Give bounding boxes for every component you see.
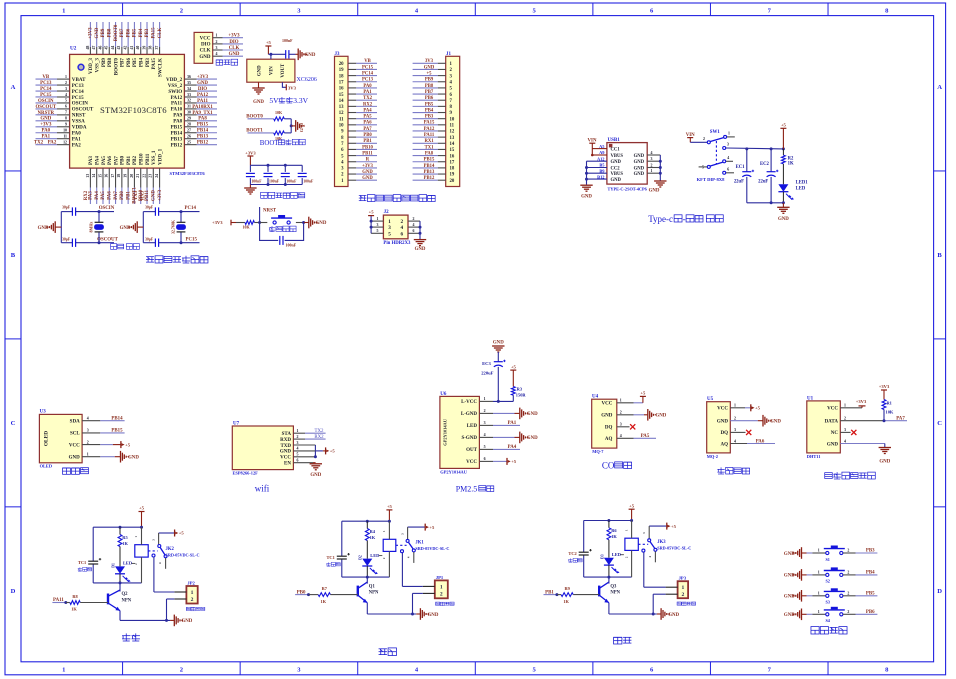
svg-text:KFT DIP-8X8: KFT DIP-8X8: [697, 177, 726, 182]
svg-text:JP2: JP2: [187, 580, 195, 585]
header J1 pin 8 net PB5: [413, 102, 453, 110]
header J3 pin 15 net PA1: [339, 90, 377, 98]
svg-text:GND: GND: [634, 160, 645, 165]
capacitor 100nF filter 1: [246, 165, 262, 184]
svg-text:VSS_1: VSS_1: [151, 150, 157, 165]
capacitor 30pF bottom: [145, 238, 159, 247]
resistor R5 1K: [118, 527, 128, 546]
svg-text:PA5: PA5: [101, 156, 107, 165]
connector USB1 designator: [608, 138, 621, 143]
svg-text:1: 1: [818, 610, 820, 614]
svg-text:PA12: PA12: [424, 127, 435, 132]
svg-text:14: 14: [339, 99, 344, 104]
net label PB14: [100, 416, 124, 421]
MCU pin 5 OSCIN: [36, 99, 89, 107]
caption jiashi: [122, 633, 140, 641]
capacitor 100nF reset: [280, 236, 297, 248]
svg-text:1: 1: [377, 217, 379, 221]
wire collector: [608, 577, 610, 584]
svg-text:GP2Y1014AU: GP2Y1014AU: [443, 418, 448, 445]
capacitor 30pF top: [62, 206, 76, 216]
resistor R4 1K: [365, 521, 375, 540]
svg-text:39: 39: [142, 46, 146, 50]
svg-text:R4: R4: [370, 529, 376, 534]
svg-text:R1: R1: [887, 401, 892, 406]
svg-text:GND: GND: [253, 100, 264, 105]
caption jinghua: [379, 648, 397, 656]
power +3V3 reset: [212, 220, 236, 226]
resistor R3 150R: [511, 386, 526, 397]
svg-text:PA2: PA2: [48, 141, 57, 146]
svg-text:5: 5: [377, 229, 379, 233]
led bottom rail wire: [342, 576, 390, 578]
svg-text:OUT: OUT: [466, 448, 478, 453]
MCU pin 33 PA12: [171, 93, 217, 101]
svg-text:PB7: PB7: [120, 28, 125, 37]
svg-text:12: 12: [450, 130, 455, 135]
MCU pin 45 PB8: [105, 22, 113, 67]
MCU pin 43 PB7: [117, 22, 125, 67]
svg-text:12: 12: [339, 111, 344, 116]
connector JP3 designator: [679, 576, 687, 581]
module U7 designator: [233, 422, 240, 427]
svg-text:LED1: LED1: [796, 180, 809, 185]
wire en row: [293, 462, 315, 464]
svg-text:+5: +5: [511, 459, 517, 464]
sensor U1 designator: [807, 396, 814, 401]
svg-text:VB: VB: [42, 75, 50, 80]
svg-text:10: 10: [63, 129, 67, 133]
svg-text:35: 35: [187, 81, 191, 85]
svg-text:GND: GND: [611, 178, 622, 183]
caption tandianrong: [326, 562, 340, 566]
svg-text:2: 2: [847, 570, 849, 574]
caption lvse dizuo: [677, 602, 696, 606]
svg-text:MQ-2: MQ-2: [707, 454, 718, 459]
wire txd down: [293, 445, 315, 457]
svg-text:GND: GND: [38, 226, 49, 231]
svg-text:6: 6: [413, 229, 415, 233]
capacitor EC1 22uF: [734, 149, 754, 203]
MCU pin 13 PA3: [84, 156, 94, 204]
sensor U1 pin 1 VCC: [827, 404, 846, 412]
header J3 pin 8 net PB0: [341, 133, 377, 141]
header J1 pin 15 net TX1: [413, 145, 455, 153]
junction: [366, 520, 369, 523]
svg-text:45: 45: [105, 46, 109, 50]
sensor U6 pin 1 L-VCC: [461, 397, 493, 405]
svg-text:1: 1: [620, 399, 622, 403]
relay part number: [415, 546, 449, 551]
svg-text:wifi: wifi: [255, 484, 270, 494]
diode D3 LED: [600, 552, 624, 573]
svg-text:GND: GND: [181, 619, 192, 624]
svg-text:16: 16: [450, 154, 455, 159]
svg-text:PA2: PA2: [72, 142, 81, 148]
svg-text:S-GND: S-GND: [461, 436, 477, 441]
svg-text:VCC: VCC: [200, 36, 211, 41]
svg-text:16: 16: [105, 174, 109, 178]
sensor U5 designator: [707, 397, 714, 402]
svg-text:USB1: USB1: [608, 138, 621, 143]
svg-text:+5: +5: [179, 531, 185, 536]
wire bus to gnd: [291, 125, 295, 127]
junction: [585, 172, 588, 175]
svg-text:3: 3: [297, 441, 299, 445]
wire J2 right bus: [419, 221, 421, 239]
svg-text:2: 2: [297, 435, 299, 439]
reset button S?: [271, 215, 292, 224]
net label BOOT0: [246, 115, 273, 120]
svg-text:JP1: JP1: [436, 575, 444, 580]
module U7 pin 5 VCC: [280, 453, 298, 461]
wire dht gnd: [840, 444, 885, 448]
svg-text:20: 20: [130, 174, 134, 178]
svg-text:RXD: RXD: [280, 438, 291, 443]
svg-text:GND: GND: [634, 154, 645, 159]
transistor Q2 NPN: [108, 590, 132, 611]
svg-text:PB11: PB11: [145, 153, 151, 165]
power +5 at regulator: [265, 40, 271, 54]
wire oled gnd: [100, 456, 120, 458]
caption wenshidu chuanganqi: [825, 472, 876, 479]
svg-text:RX2: RX2: [363, 102, 373, 107]
svg-text:+5: +5: [671, 524, 677, 529]
svg-text:+5: +5: [640, 391, 646, 396]
svg-text:37: 37: [155, 46, 159, 50]
header J3 pin 18 net PC14: [339, 72, 377, 80]
power +3V3 pullup: [879, 384, 890, 399]
svg-text:PA1: PA1: [363, 90, 372, 95]
svg-text:C: C: [937, 420, 942, 427]
wire led to rail: [608, 565, 610, 577]
header J2 left pins: [371, 217, 383, 233]
svg-text:4: 4: [727, 156, 729, 160]
svg-text:25: 25: [187, 140, 191, 144]
header J3 pin 9 net PA7: [341, 127, 377, 135]
header J3 pin 14 net TX2: [339, 96, 377, 104]
caption fuwei dianlu: [269, 226, 296, 232]
sensor U1 body: [807, 401, 841, 453]
caption tandianrong: [568, 558, 582, 562]
svg-text:VCC: VCC: [602, 402, 613, 407]
svg-text:PA3: PA3: [88, 156, 94, 165]
relay contact B: [406, 549, 415, 563]
svg-text:PB15: PB15: [111, 429, 123, 434]
sensor U6 pin 5 OUT: [466, 445, 493, 453]
svg-text:PB6: PB6: [425, 96, 434, 101]
wire to r10k: [236, 222, 245, 224]
svg-text:17: 17: [111, 174, 115, 178]
svg-text:GND: GND: [152, 190, 157, 201]
junction: [585, 178, 588, 181]
svg-text:PB8: PB8: [107, 28, 112, 37]
MCU pin 6 OSCOUT: [35, 105, 93, 113]
svg-text:2: 2: [847, 610, 849, 614]
svg-text:GND: GND: [493, 340, 504, 345]
svg-text:PB3: PB3: [866, 549, 875, 554]
connector USB1 footprint: [608, 187, 648, 192]
svg-text:32: 32: [187, 99, 191, 103]
junction: [770, 147, 773, 150]
svg-text:GND: GND: [197, 81, 208, 86]
relay switch common pin: [151, 533, 158, 544]
junction: [607, 519, 610, 522]
svg-text:9: 9: [65, 123, 67, 127]
svg-text:RX2: RX2: [84, 190, 89, 200]
connector P1 pin 4 GND: [199, 52, 243, 60]
MCU pin 11 PA1: [36, 135, 82, 143]
svg-text:4: 4: [844, 439, 846, 443]
svg-text:PB5: PB5: [425, 102, 434, 107]
power +5 jiaquan: [730, 404, 760, 411]
wire node to button: [260, 222, 268, 224]
svg-text:PC15: PC15: [362, 65, 374, 70]
ground pm25 sgnd: [520, 432, 538, 444]
svg-text:TC1: TC1: [327, 555, 335, 560]
MCU pin 28 PB15: [171, 123, 217, 131]
power +5 co: [617, 391, 646, 403]
svg-text:LED: LED: [796, 186, 806, 191]
header J3 pin 6 net PB10: [341, 145, 377, 153]
svg-text:3: 3: [620, 423, 622, 427]
header J1 pin 11 net PA15: [413, 121, 455, 129]
net label NRST: [260, 207, 277, 223]
svg-text:VCC: VCC: [466, 460, 477, 465]
svg-text:JK1: JK1: [415, 541, 424, 546]
wire jp pin1: [402, 553, 434, 587]
MCU pin 24 VDD_1: [155, 148, 163, 204]
svg-text:38: 38: [149, 46, 153, 50]
svg-text:TX2: TX2: [34, 141, 44, 146]
header J3 pin 1 net GND: [341, 176, 377, 184]
svg-text:18: 18: [450, 167, 455, 172]
connector JP1 pin numbers: [440, 584, 443, 597]
net label TX2 wifi: [293, 429, 325, 434]
svg-text:EN: EN: [284, 462, 291, 467]
crystal left rail wire: [60, 212, 62, 243]
svg-text:GND: GND: [95, 27, 100, 38]
MCU pin 16 PA6: [105, 156, 113, 204]
wire tc branch: [341, 521, 343, 577]
diode LED1: [778, 180, 808, 200]
svg-text:20: 20: [339, 62, 344, 67]
wire base: [573, 594, 599, 596]
MCU U2 pin-1 mark: [78, 64, 84, 70]
junction: [652, 613, 655, 616]
svg-text:PA1: PA1: [508, 421, 517, 426]
relay switch +5 wire: [649, 523, 676, 530]
sensor U5 pin 2 GND: [717, 417, 736, 425]
led bottom rail wire: [584, 576, 632, 578]
svg-text:R9: R9: [564, 586, 570, 591]
svg-text:+5: +5: [125, 442, 131, 447]
MCU pin 27 PB14: [171, 129, 217, 137]
sensor U6 pin 3 LED: [467, 421, 493, 429]
svg-text:PC13: PC13: [362, 78, 374, 83]
wire vin to sw pin2: [690, 138, 707, 143]
ground jinghua: [420, 608, 438, 620]
relay JK1 designator: [415, 541, 424, 546]
svg-text:PB6: PB6: [126, 58, 132, 68]
svg-text:2: 2: [413, 217, 415, 221]
svg-text:U2: U2: [70, 46, 77, 52]
svg-text:27: 27: [187, 129, 191, 133]
header J1 designator: [446, 52, 452, 57]
header J3 pin 17 net PC13: [339, 78, 377, 86]
svg-text:R2: R2: [788, 156, 794, 161]
svg-text:43: 43: [117, 46, 121, 50]
MCU pin 18 PB0: [117, 155, 125, 204]
header J3 pin 10 net PA6: [339, 121, 377, 129]
junction: [770, 201, 773, 204]
wire vout: [282, 82, 286, 87]
caption jingzhen dianlu: [111, 244, 140, 250]
svg-text:PB15: PB15: [197, 123, 209, 128]
header J1 pin 16 net PA8: [413, 151, 455, 159]
header J1 pin 1 net 3V3: [413, 59, 453, 67]
svg-text:J1: J1: [446, 52, 452, 57]
MCU pin 47 VSS_3: [92, 22, 100, 72]
svg-text:MQ-7: MQ-7: [592, 449, 604, 454]
ground co: [648, 409, 667, 421]
svg-text:1: 1: [216, 34, 218, 38]
svg-text:PB5: PB5: [132, 58, 138, 68]
junction: [366, 576, 369, 579]
ground usb left: [580, 185, 592, 199]
svg-text:GND: GND: [649, 188, 660, 193]
svg-text:C: C: [11, 420, 16, 427]
svg-text:PB5: PB5: [866, 592, 875, 597]
svg-text:+5: +5: [330, 449, 336, 454]
svg-text:4: 4: [413, 223, 415, 227]
svg-text:D: D: [937, 588, 942, 595]
wire boot0 to bus: [284, 119, 291, 133]
switch SW1 pin 3: [723, 143, 729, 150]
svg-text:PM2.5: PM2.5: [456, 485, 478, 494]
svg-text:AQ: AQ: [605, 437, 613, 442]
svg-text:4: 4: [651, 151, 653, 155]
svg-text:PA4: PA4: [363, 108, 372, 113]
ground dht: [879, 448, 891, 465]
MCU pin 22 PB11: [140, 153, 150, 204]
svg-text:L-GND: L-GND: [461, 412, 478, 417]
net label PC14: [185, 206, 197, 211]
MCU pin 15 PA5: [98, 156, 106, 204]
connector USB1 pin designators: [597, 144, 605, 180]
svg-text:PA7: PA7: [113, 156, 119, 165]
svg-text:2: 2: [681, 592, 684, 598]
svg-text:VBUS: VBUS: [611, 172, 624, 177]
svg-text:+5: +5: [755, 406, 761, 411]
svg-text:CLK: CLK: [229, 46, 240, 51]
svg-text:2: 2: [216, 40, 218, 44]
MCU U2 body: [70, 54, 185, 168]
relay coil top pin: [624, 521, 631, 539]
header J2 pin numbers: [388, 219, 403, 237]
svg-text:TX2: TX2: [363, 96, 373, 101]
reset cap loop wire: [260, 223, 304, 241]
svg-text:R7: R7: [322, 586, 328, 591]
svg-text:2: 2: [191, 597, 194, 603]
svg-text:30pF: 30pF: [145, 206, 154, 210]
svg-text:PA4: PA4: [508, 445, 517, 450]
svg-text:17: 17: [450, 160, 455, 165]
junction: [419, 232, 422, 235]
svg-text:PA0: PA0: [363, 84, 372, 89]
svg-text:BOOT: BOOT: [260, 140, 280, 147]
svg-text:10K: 10K: [242, 225, 250, 230]
connector JP1 body: [435, 580, 448, 598]
header J1 pin 9 net PB4: [413, 108, 453, 116]
svg-text:J3: J3: [335, 52, 341, 57]
svg-text:40: 40: [136, 46, 140, 50]
svg-text:PB4: PB4: [139, 58, 145, 68]
net label PA4: [493, 445, 520, 450]
wire collector: [366, 577, 368, 584]
header J3 designator: [335, 52, 341, 57]
wire jp pin1: [644, 552, 678, 587]
net label BOOT1: [246, 129, 273, 134]
ground button S4: [784, 609, 802, 621]
svg-text:1: 1: [62, 666, 65, 673]
svg-text:VCC: VCC: [69, 443, 80, 448]
relay JK3 coil: [625, 538, 638, 550]
module U7 pin 1 STA: [282, 429, 299, 437]
junction: [290, 124, 293, 127]
svg-text:PB3: PB3: [425, 115, 434, 120]
svg-text:PA7: PA7: [896, 417, 905, 422]
svg-text:VCC: VCC: [280, 456, 291, 461]
svg-text:PC14: PC14: [185, 206, 197, 211]
junction: [64, 601, 67, 604]
svg-text:14: 14: [92, 174, 96, 178]
svg-text:3: 3: [734, 428, 736, 432]
svg-text:NRST: NRST: [263, 209, 277, 214]
capacitor EC3 220uF: [481, 360, 505, 402]
wire led to rail: [119, 574, 121, 583]
svg-text:OLED: OLED: [44, 431, 50, 446]
svg-text:+5: +5: [266, 40, 272, 45]
svg-text:100nF: 100nF: [286, 243, 297, 248]
svg-text:VDD_1: VDD_1: [157, 148, 163, 165]
svg-text:+5: +5: [629, 503, 635, 508]
resistor R1 10K: [882, 400, 894, 415]
svg-text:AQ: AQ: [721, 442, 729, 447]
header J3 pin 4 net R: [341, 158, 377, 166]
svg-text:PA15: PA15: [152, 27, 157, 39]
svg-text:PC13: PC13: [40, 81, 52, 86]
svg-text:S1: S1: [825, 557, 829, 562]
svg-text:CC2: CC2: [611, 166, 621, 171]
svg-text:PB12: PB12: [424, 176, 435, 181]
header J1 pin 3 net +5: [413, 72, 453, 80]
svg-text:TC2: TC2: [568, 551, 576, 556]
svg-text:1: 1: [818, 549, 820, 553]
svg-text:GND: GND: [634, 166, 645, 171]
power +5 jiashi: [139, 506, 145, 528]
switch SW1 lever bottom: [710, 162, 722, 166]
caption xiazaikou: [216, 59, 238, 65]
svg-text:1: 1: [87, 453, 89, 457]
connector P1 pin 2 DIO: [201, 40, 243, 48]
svg-text:2: 2: [703, 137, 705, 141]
svg-text:GP2Y1014AU: GP2Y1014AU: [440, 469, 467, 474]
svg-text:18: 18: [117, 174, 121, 178]
svg-text:JK3: JK3: [657, 540, 666, 545]
display U3 body: [39, 414, 82, 462]
MCU pin 35 VSS_2: [168, 81, 217, 89]
